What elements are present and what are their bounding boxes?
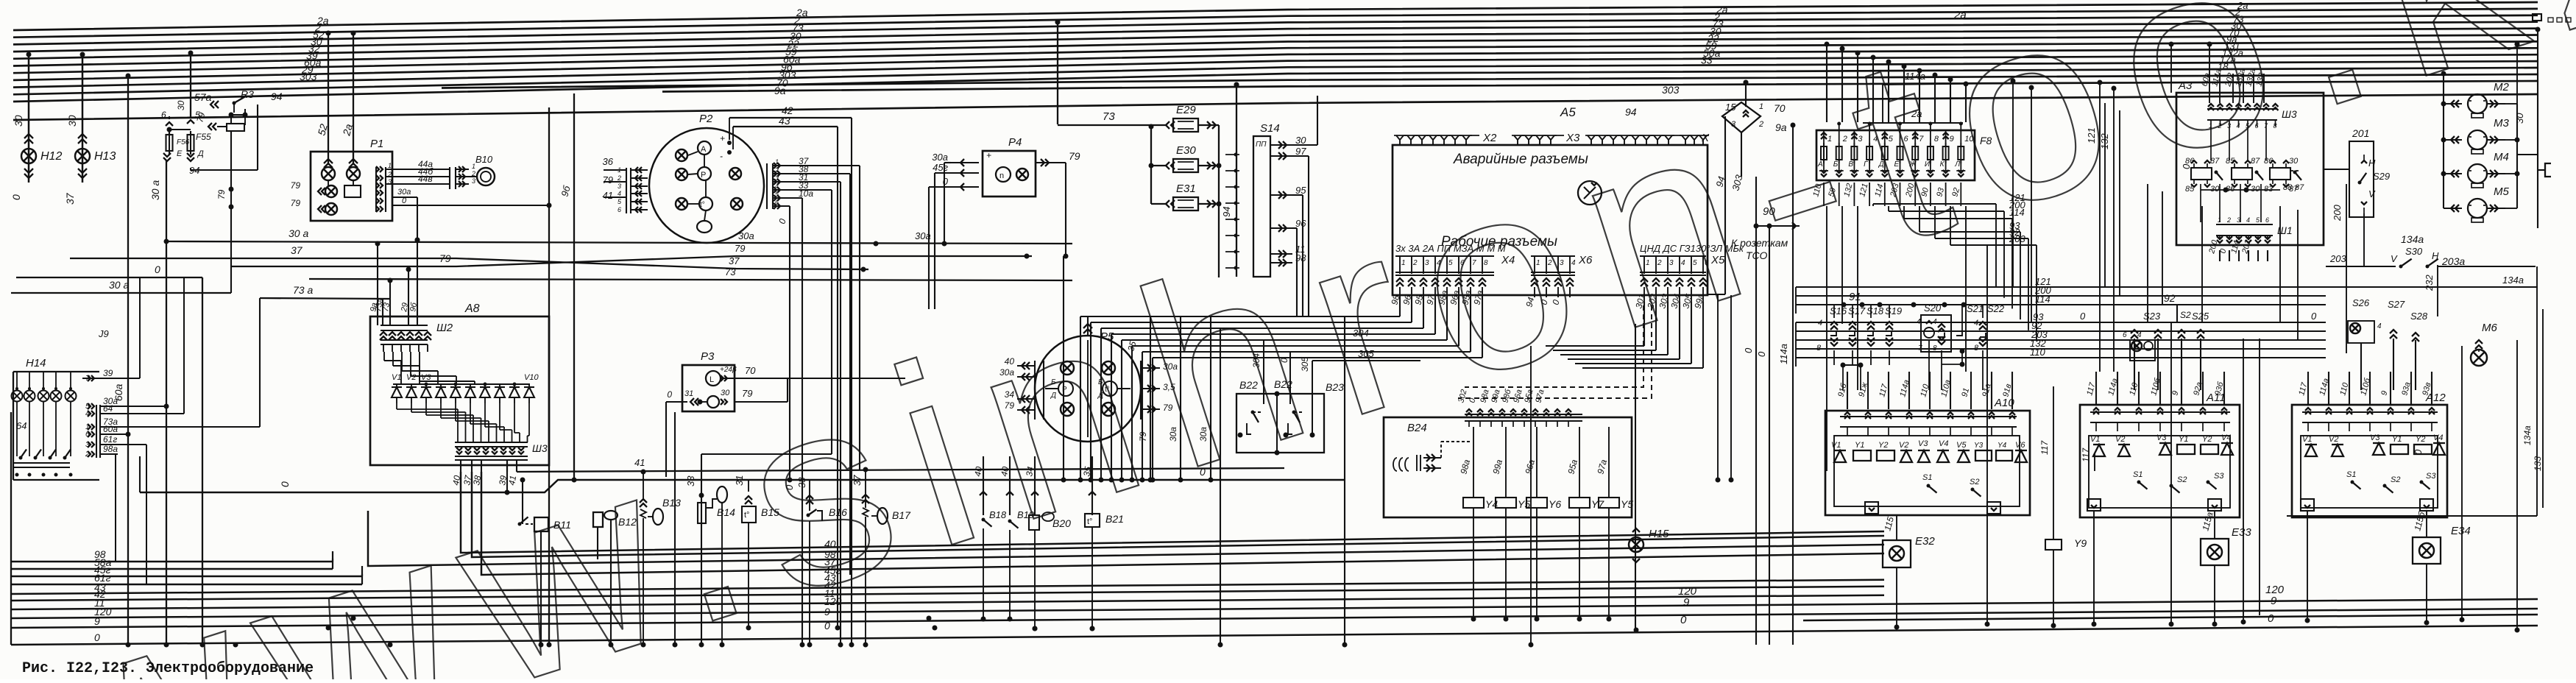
svg-text:5: 5: [1448, 259, 1453, 267]
svg-text:E: E: [177, 149, 183, 158]
svg-text:+: +: [720, 133, 725, 144]
svg-text:87: 87: [2210, 157, 2220, 166]
svg-text:3: 3: [775, 174, 779, 182]
svg-text:A3: A3: [2178, 79, 2193, 92]
svg-text:30: 30: [66, 115, 78, 127]
svg-text:30: 30: [721, 389, 730, 397]
svg-text:70: 70: [745, 365, 756, 376]
svg-text:0: 0: [667, 389, 672, 400]
svg-text:40: 40: [1005, 356, 1015, 367]
svg-text:Д: Д: [197, 149, 204, 158]
svg-text:30: 30: [176, 100, 186, 110]
svg-text:96: 96: [1295, 218, 1306, 229]
svg-text:S3: S3: [2214, 472, 2224, 481]
svg-text:30a: 30a: [1198, 427, 1209, 442]
svg-text:E31: E31: [1176, 183, 1196, 195]
svg-text:1: 1: [1401, 259, 1406, 267]
svg-text:V4: V4: [1939, 439, 1948, 448]
svg-text:A5: A5: [1560, 105, 1576, 119]
svg-text:M3: M3: [2494, 117, 2509, 130]
svg-text:0: 0: [155, 263, 160, 275]
svg-text:S20: S20: [1924, 302, 1942, 314]
svg-text:9a: 9a: [774, 85, 786, 96]
svg-text:1: 1: [775, 158, 779, 166]
svg-text:М6: М6: [2482, 322, 2497, 334]
svg-text:2: 2: [1758, 120, 1763, 129]
svg-text:2: 2: [617, 174, 621, 182]
svg-text:t°: t°: [700, 201, 705, 209]
svg-text:121: 121: [2086, 127, 2097, 144]
svg-text:10: 10: [1964, 135, 1974, 144]
svg-text:15: 15: [1725, 102, 1736, 113]
svg-text:117: 117: [2039, 440, 2050, 455]
svg-text:201: 201: [2352, 127, 2369, 139]
svg-text:34: 34: [1024, 466, 1036, 478]
svg-text:30 a: 30 a: [149, 180, 161, 200]
svg-text:0: 0: [2268, 612, 2274, 625]
svg-text:2a: 2a: [1953, 9, 1967, 21]
svg-text:41: 41: [506, 475, 518, 486]
svg-text:S29: S29: [2373, 171, 2390, 182]
svg-text:V1: V1: [1831, 441, 1841, 450]
svg-text:+: +: [986, 150, 991, 160]
svg-text:X5: X5: [1710, 254, 1725, 266]
svg-text:3: 3: [1425, 259, 1429, 267]
svg-text:X6: X6: [1578, 254, 1593, 266]
svg-text:8: 8: [1934, 135, 1939, 144]
svg-text:7: 7: [85, 375, 90, 383]
svg-text:Б: Б: [1051, 378, 1056, 386]
svg-text:41: 41: [634, 457, 645, 468]
svg-text:4: 4: [2237, 122, 2240, 130]
svg-text:M2: M2: [2494, 81, 2509, 93]
svg-text:6: 6: [1904, 135, 1909, 144]
svg-text:-: -: [720, 151, 723, 161]
svg-text:91: 91: [1849, 291, 1861, 303]
svg-text:0: 0: [1200, 466, 1206, 478]
svg-text:J9: J9: [98, 328, 109, 339]
svg-text:F8: F8: [1980, 135, 1992, 146]
svg-text:40: 40: [450, 475, 462, 486]
svg-text:304: 304: [1353, 328, 1369, 339]
svg-text:30: 30: [1295, 135, 1306, 146]
svg-text:304: 304: [1251, 353, 1262, 368]
svg-text:E34: E34: [2451, 525, 2471, 537]
svg-text:4: 4: [2246, 216, 2250, 224]
svg-text:E32: E32: [1915, 535, 1935, 548]
svg-text:A: A: [701, 145, 707, 154]
svg-text:4: 4: [1917, 318, 1921, 326]
svg-text:Аварийные разъемы: Аварийные разъемы: [1453, 152, 1588, 167]
svg-text:2: 2: [1412, 259, 1418, 267]
svg-text:Y5: Y5: [1621, 498, 1633, 510]
svg-text:P3: P3: [701, 350, 715, 363]
svg-text:203a: 203a: [2441, 255, 2465, 267]
svg-text:S26: S26: [2352, 297, 2370, 308]
svg-text:3: 3: [618, 183, 621, 190]
svg-text:92: 92: [2164, 292, 2176, 304]
svg-text:37: 37: [291, 244, 303, 256]
svg-text:E30: E30: [1176, 144, 1196, 157]
svg-text:H: H: [2368, 158, 2376, 169]
svg-text:V10: V10: [524, 373, 539, 382]
svg-text:Б: Б: [1833, 160, 1839, 169]
svg-text:Д: Д: [1050, 392, 1056, 400]
svg-text:5: 5: [1889, 135, 1894, 144]
svg-text:Ж: Ж: [1908, 160, 1917, 169]
svg-text:И: И: [1925, 160, 1931, 169]
svg-text:H15: H15: [1649, 528, 1669, 540]
svg-text:79: 79: [216, 189, 227, 199]
svg-text:1: 1: [1646, 259, 1650, 267]
svg-text:Д: Д: [1878, 160, 1884, 169]
svg-text:3х 3А 2А ПП МЗА М М М: 3х 3А 2А ПП МЗА М М М: [1395, 243, 1506, 254]
svg-text:8: 8: [2274, 122, 2277, 130]
svg-text:0: 0: [824, 620, 830, 631]
svg-text:S30: S30: [2405, 246, 2423, 257]
svg-text:303: 303: [300, 71, 317, 82]
svg-text:S1: S1: [2133, 470, 2142, 479]
svg-text:60a: 60a: [103, 424, 118, 434]
svg-text:4: 4: [2137, 331, 2142, 339]
svg-text:B16: B16: [829, 506, 847, 518]
svg-text:98a: 98a: [103, 444, 118, 454]
svg-text:30: 30: [2289, 157, 2299, 166]
svg-text:Y2: Y2: [1878, 441, 1888, 450]
svg-text:57a: 57a: [194, 91, 212, 103]
svg-text:2a: 2a: [1911, 108, 1922, 119]
svg-text:0: 0: [2413, 449, 2424, 455]
svg-text:8: 8: [1816, 344, 1822, 353]
svg-text:Y4: Y4: [1998, 442, 2007, 450]
svg-text:3: 3: [85, 441, 90, 449]
svg-text:86: 86: [2264, 157, 2274, 166]
svg-text:B21: B21: [1105, 513, 1124, 525]
svg-text:B10: B10: [475, 154, 493, 165]
svg-text:73 a: 73 a: [293, 284, 313, 296]
svg-text:85: 85: [2185, 185, 2195, 194]
svg-text:H13: H13: [94, 150, 116, 163]
svg-text:0: 0: [784, 484, 795, 490]
svg-text:R3: R3: [241, 88, 254, 100]
svg-text:203: 203: [2329, 253, 2346, 264]
svg-text:S21: S21: [1967, 303, 1984, 314]
svg-text:303: 303: [1662, 84, 1680, 96]
svg-text:H12: H12: [40, 150, 62, 163]
svg-text:31: 31: [734, 475, 745, 486]
svg-text:38: 38: [796, 477, 807, 488]
svg-text:Ш3: Ш3: [2282, 108, 2297, 120]
svg-text:B11: B11: [553, 519, 571, 531]
svg-text:110: 110: [2030, 347, 2045, 358]
svg-text:70: 70: [1774, 102, 1786, 114]
svg-text:83: 83: [2264, 185, 2274, 194]
svg-text:0: 0: [94, 631, 100, 643]
svg-text:B17: B17: [892, 509, 911, 521]
svg-text:0: 0: [2311, 311, 2317, 322]
svg-text:4: 4: [1933, 318, 1937, 326]
svg-text:30: 30: [2514, 113, 2525, 124]
svg-text:V1: V1: [392, 373, 401, 382]
svg-text:73: 73: [725, 266, 736, 277]
svg-text:2: 2: [1657, 259, 1662, 267]
svg-text:4: 4: [1818, 319, 1822, 328]
svg-text:114a: 114a: [1778, 344, 1789, 364]
svg-text:V: V: [2391, 253, 2398, 264]
svg-text:7: 7: [1919, 135, 1924, 144]
svg-text:9: 9: [824, 606, 830, 617]
svg-text:S1: S1: [2346, 470, 2356, 479]
svg-text:M5: M5: [2494, 185, 2509, 198]
svg-text:2: 2: [1547, 259, 1552, 267]
svg-text:232: 232: [2424, 275, 2435, 291]
svg-text:X2: X2: [1482, 132, 1497, 144]
svg-text:X4: X4: [1501, 254, 1515, 266]
svg-text:88: 88: [2283, 183, 2293, 192]
svg-text:Ш3: Ш3: [532, 442, 548, 454]
svg-text:133: 133: [2533, 456, 2543, 471]
svg-text:B24: B24: [1407, 422, 1427, 434]
svg-text:31: 31: [684, 389, 693, 398]
svg-text:4: 4: [775, 183, 779, 190]
svg-text:36: 36: [603, 156, 614, 167]
svg-text:200: 200: [2332, 205, 2343, 222]
svg-text:6: 6: [161, 110, 166, 120]
svg-text:114: 114: [2035, 294, 2050, 305]
svg-text:S17: S17: [1848, 305, 1866, 316]
svg-text:94: 94: [1625, 106, 1637, 118]
svg-text:9: 9: [1683, 596, 1690, 609]
svg-text:30a: 30a: [397, 188, 411, 197]
svg-text:30a: 30a: [1163, 361, 1178, 372]
svg-text:44в: 44в: [418, 174, 433, 184]
svg-text:ПП: ПП: [1256, 141, 1267, 149]
svg-text:X3: X3: [1565, 132, 1580, 144]
svg-text:4: 4: [2377, 322, 2382, 330]
svg-text:A8: A8: [464, 302, 480, 315]
svg-text:B22: B22: [1239, 379, 1258, 391]
svg-text:7: 7: [1472, 259, 1476, 267]
svg-text:1: 1: [1759, 102, 1763, 111]
svg-text:t°: t°: [1087, 517, 1092, 526]
svg-text:33: 33: [1701, 54, 1713, 66]
svg-text:В: В: [1848, 160, 1853, 169]
svg-text:73: 73: [1103, 110, 1115, 123]
svg-text:P5: P5: [1100, 330, 1114, 343]
svg-text:V2: V2: [406, 373, 416, 382]
svg-text:V3: V3: [421, 373, 431, 382]
svg-text:B15: B15: [761, 506, 779, 518]
svg-text:9: 9: [1950, 135, 1954, 144]
svg-text:37: 37: [729, 255, 740, 266]
svg-text:6: 6: [2123, 331, 2127, 339]
svg-text:30: 30: [13, 115, 24, 127]
svg-text:К розеткам: К розеткам: [1731, 237, 1788, 249]
svg-text:30a: 30a: [1168, 427, 1178, 442]
svg-text:2: 2: [85, 450, 90, 459]
svg-text:3: 3: [472, 177, 475, 185]
svg-text:114a: 114a: [1905, 71, 1925, 82]
svg-text:114: 114: [2009, 207, 2025, 218]
svg-text:4: 4: [1974, 319, 1978, 328]
svg-text:S23: S23: [2143, 311, 2161, 322]
svg-text:S18: S18: [1866, 305, 1884, 316]
svg-text:2: 2: [2218, 122, 2222, 130]
svg-text:3: 3: [1731, 120, 1736, 129]
svg-text:38: 38: [471, 475, 483, 486]
svg-text:34: 34: [1005, 389, 1015, 400]
svg-text:L: L: [710, 375, 714, 384]
svg-text:4: 4: [85, 410, 90, 418]
svg-text:F55: F55: [196, 132, 211, 142]
svg-text:S1: S1: [1922, 473, 1932, 482]
svg-text:8: 8: [1484, 259, 1488, 267]
svg-text:7: 7: [1918, 344, 1922, 353]
svg-text:1: 1: [1536, 259, 1540, 267]
svg-text:79: 79: [1163, 403, 1173, 413]
svg-text:64: 64: [16, 420, 26, 431]
svg-text:E33: E33: [2232, 526, 2251, 539]
svg-text:S14: S14: [1260, 122, 1280, 135]
svg-text:94: 94: [189, 165, 199, 176]
svg-text:M4: M4: [2494, 151, 2509, 163]
svg-text:90: 90: [1763, 205, 1775, 218]
svg-text:79: 79: [603, 174, 613, 185]
svg-text:43: 43: [779, 115, 790, 127]
svg-text:0: 0: [2080, 311, 2086, 322]
svg-text:134a: 134a: [2522, 425, 2533, 445]
svg-text:0: 0: [1680, 614, 1687, 626]
svg-text:0: 0: [2181, 163, 2192, 169]
svg-text:n: n: [999, 171, 1004, 180]
svg-text:ЦНД ДС ГЗ130°ЗЛ МБк: ЦНД ДС ГЗ130°ЗЛ МБк: [1640, 243, 1744, 254]
svg-text:37: 37: [852, 475, 863, 486]
svg-text:Y9: Y9: [2074, 537, 2087, 549]
svg-text:V3: V3: [1918, 439, 1928, 448]
svg-text:85: 85: [2226, 157, 2235, 166]
svg-text:t°: t°: [1105, 386, 1110, 394]
svg-text:79: 79: [735, 243, 745, 254]
svg-text:+24β: +24β: [720, 366, 737, 374]
svg-text:3,5: 3,5: [1163, 382, 1175, 392]
svg-text:S22: S22: [1987, 303, 2005, 314]
svg-text:4: 4: [1681, 259, 1685, 267]
svg-text:6: 6: [618, 206, 621, 213]
svg-text:E29: E29: [1176, 104, 1196, 116]
svg-text:V3: V3: [2370, 433, 2380, 442]
svg-text:95: 95: [1295, 185, 1306, 196]
svg-text:79: 79: [1005, 400, 1015, 411]
svg-text:6: 6: [2265, 216, 2269, 224]
svg-text:P4: P4: [1008, 136, 1022, 149]
svg-text:S27: S27: [2388, 299, 2405, 310]
svg-text:45г: 45г: [933, 162, 948, 173]
svg-text:B12: B12: [618, 516, 637, 528]
svg-text:H14: H14: [26, 357, 46, 369]
svg-text:87: 87: [2251, 157, 2260, 166]
svg-text:B13: B13: [662, 497, 681, 509]
svg-text:8: 8: [1974, 344, 1979, 353]
svg-text:0: 0: [1743, 347, 1754, 353]
svg-text:3: 3: [1669, 259, 1674, 267]
svg-text:V6: V6: [2015, 441, 2025, 450]
svg-text:2: 2: [1842, 135, 1847, 144]
svg-text:Е: Е: [1894, 160, 1900, 169]
svg-text:0: 0: [279, 481, 291, 487]
svg-text:9a: 9a: [1775, 121, 1787, 133]
svg-text:9: 9: [2271, 595, 2277, 607]
svg-text:V5: V5: [1956, 441, 1967, 450]
svg-text:61г: 61г: [103, 434, 117, 445]
svg-text:39: 39: [103, 368, 113, 378]
svg-text:134a: 134a: [2401, 233, 2424, 245]
svg-text:30: 30: [2251, 185, 2260, 194]
svg-text:1: 1: [1827, 135, 1832, 144]
svg-text:B23: B23: [1326, 381, 1344, 393]
svg-text:40: 40: [999, 466, 1011, 478]
svg-text:S3: S3: [2426, 472, 2436, 481]
svg-text:94: 94: [271, 91, 283, 102]
svg-text:0: 0: [402, 197, 407, 205]
svg-text:0: 0: [10, 194, 22, 200]
svg-text:79: 79: [291, 198, 301, 208]
svg-text:6: 6: [775, 199, 779, 206]
svg-text:4: 4: [1873, 135, 1878, 144]
svg-text:B20: B20: [1052, 517, 1071, 529]
svg-text:203: 203: [2009, 233, 2025, 244]
svg-text:4: 4: [618, 190, 621, 197]
svg-text:S2: S2: [2177, 475, 2187, 484]
svg-text:0: 0: [1756, 351, 1767, 357]
svg-text:79: 79: [291, 180, 301, 191]
svg-text:1: 1: [388, 162, 392, 169]
svg-text:10a: 10a: [799, 188, 813, 199]
svg-text:Y6: Y6: [1549, 498, 1561, 510]
svg-text:B14: B14: [717, 506, 735, 518]
svg-text:2: 2: [2226, 216, 2231, 224]
svg-text:30a: 30a: [932, 152, 948, 163]
svg-text:6: 6: [1705, 259, 1709, 267]
svg-text:40: 40: [972, 466, 984, 478]
svg-text:S2: S2: [2391, 475, 2400, 484]
svg-text:P: P: [701, 171, 706, 180]
svg-text:X: X: [1701, 132, 1710, 144]
svg-text:S2: S2: [2180, 310, 2191, 320]
svg-text:Y1: Y1: [1855, 441, 1864, 450]
svg-text:t°: t°: [744, 511, 749, 520]
svg-text:S16: S16: [1830, 305, 1847, 316]
svg-text:V: V: [2368, 188, 2376, 199]
svg-text:79: 79: [742, 388, 752, 399]
svg-text:4: 4: [1437, 259, 1441, 267]
svg-text:Рис. I22,I23. Электрооборудова: Рис. I22,I23. Электрооборудование: [22, 660, 314, 677]
svg-text:134a: 134a: [2502, 275, 2524, 286]
svg-text:79: 79: [1069, 150, 1080, 162]
svg-text:S28: S28: [2410, 311, 2428, 322]
svg-text:H: H: [2432, 250, 2439, 261]
svg-text:V3: V3: [2156, 433, 2167, 442]
svg-text:P2: P2: [699, 113, 713, 125]
svg-text:94: 94: [1221, 207, 1232, 217]
svg-text:64: 64: [103, 403, 113, 414]
svg-text:9: 9: [94, 615, 100, 627]
svg-text:2: 2: [774, 166, 779, 174]
svg-text:30: 30: [2210, 185, 2220, 194]
svg-text:P1: P1: [370, 138, 383, 150]
svg-text:30 a: 30 a: [289, 227, 308, 239]
svg-text:Ш2: Ш2: [436, 322, 453, 334]
svg-text:305: 305: [1300, 357, 1310, 372]
